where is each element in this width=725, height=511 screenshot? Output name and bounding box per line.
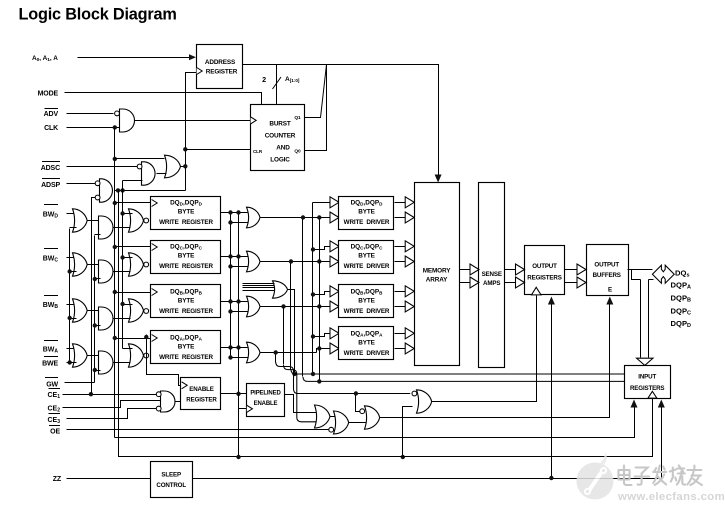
svg-text:REGISTER: REGISTER [186,397,217,404]
wire CE1 [63,394,157,396]
byte write register U5 DQB [151,285,221,318]
wire G5A lower input [70,362,77,364]
wire BWB input [67,304,77,306]
bubble G7C output [144,262,149,267]
svg-text:BYTE: BYTE [358,253,375,260]
junction v122 row B [120,302,124,306]
wire G14 out to output registers [432,296,537,402]
svg-text:CONTROL: CONTROL [156,482,186,489]
svg-text:BWB: BWB [43,302,59,310]
wire memory to sense 2 [460,282,473,284]
open arrow sense-outreg 2 [516,277,525,288]
wire register C output [221,256,248,258]
wire GW vertical [94,236,96,383]
wire GW to G6A [95,370,101,372]
wire CE3 [67,409,157,419]
open arrow driver A out lower [405,343,414,354]
svg-text:BWE: BWE [42,361,58,368]
bubble G1 ADV input [115,111,120,116]
wire register-out vertical x238 [238,213,240,457]
junction x230 G8D [228,220,232,224]
node MODE [38,91,59,98]
wire bundle B [284,307,317,422]
wire BWD input [67,213,77,215]
or-gate G8B write-enable [247,296,261,317]
arrowhead input registers 1 [631,400,638,408]
node BWA [43,341,59,355]
or-gate G13 enable-3 [365,406,380,429]
junction sleep outreg branch [549,476,553,480]
wire x313 jog to driver C top [313,247,331,250]
bubble G4 lower input [95,195,100,200]
wire G8C output to driver [261,261,339,263]
junction x313 row B [311,292,315,296]
junction x185 CLR [183,147,187,151]
node A0, A1, A [32,55,58,63]
wire bundle C to input registers line 1 [291,262,625,375]
wire G9 output [288,290,295,375]
junction CLK [113,125,117,129]
svg-text:GW: GW [46,382,58,389]
wire x230 to G8D [231,222,249,224]
open arrowhead into input registers top [637,358,654,365]
junction G4 out / v122 [120,188,124,192]
svg-text:CE3: CE3 [47,417,60,425]
svg-text:MEMORY: MEMORY [423,268,452,275]
junction G9-line1 [292,372,296,376]
svg-text:BYTE: BYTE [358,298,375,305]
wire G6D out to G7D [114,227,131,229]
svg-text:WRITE REGISTER: WRITE REGISTER [159,219,213,226]
wire CLK to register C [115,246,151,248]
arrowhead output registers 2 [548,297,555,305]
node ADSC [41,162,60,173]
bubble G7A output [144,353,149,358]
wire G5C lower input [70,271,77,273]
wire G5C out to G6C [88,264,99,266]
junction CLK row B [113,290,117,294]
junction v122 row A [0,0,1,1]
or-gate G7D byte-write-3 [129,209,144,232]
svg-text:BURST: BURST [269,121,291,128]
wire driver C out top [395,246,407,248]
junction bundle B row B [281,304,285,308]
junction bundle C row C [289,259,293,263]
junction L3 enable branch [236,455,240,459]
bubble G14 upper input [412,391,417,396]
junction v122 row C [120,255,124,259]
and-gate G4 ADSP [100,179,113,202]
svg-text:BYTE: BYTE [178,298,195,305]
wire G1 out to burst counter clock [135,120,251,122]
wire BW common vertical [69,229,71,363]
open arrow outreg-outbuf 1 [577,264,586,275]
svg-text:DQA,DQPA: DQA,DQPA [170,335,203,342]
wire CE1 up to G4 [92,198,96,395]
wire GW to G6D [95,234,101,236]
wire CLK [67,127,120,129]
wire L2 clock rail [115,405,635,438]
wire address bus [243,65,439,177]
wire G3 output [181,166,186,168]
or-gate G8D write-enable [247,207,261,228]
junction x319 row D [317,215,321,219]
wire v122 to G7B [123,304,133,306]
wire BWC input [67,257,77,259]
wire outreg to outbuf 1 [565,269,579,271]
junction gateD-line G13 [354,391,358,395]
node OE [49,426,60,436]
wire G6B out to G7B [114,318,131,320]
svg-text:BYTE: BYTE [178,209,195,216]
wire G2 out to G3 [157,173,167,175]
node CE3 [47,414,60,426]
sense amps U12 [479,183,505,368]
byte write driver U8 DQC [339,241,394,274]
svg-text:DQA,DQPA: DQA,DQPA [351,331,384,338]
wire CLR [186,149,251,151]
and-gate G6D byte-write-2 [99,216,114,239]
node DQPB [671,294,691,304]
open arrow driver C out top [405,241,414,252]
bus slash A[1:0] [273,77,282,89]
svg-text:CE1: CE1 [47,392,60,400]
label bus width 2 [262,75,266,84]
open arrow driver A top input [330,328,339,339]
wire sleep output rail [193,405,662,479]
svg-text:Q1: Q1 [294,115,301,121]
wire pipelined out to G11 [285,395,317,413]
svg-text:ADSP: ADSP [41,182,60,189]
wire G9 input 4 [243,290,275,292]
wire driver A out top [395,333,407,335]
junction x319 row A [317,346,321,350]
wire outreg to outbuf 2 [565,282,579,284]
wire L3 rail [119,191,653,457]
wire sense to outreg 1 [505,269,518,271]
svg-text:REGISTERS: REGISTERS [630,385,664,392]
wire G4 output [115,190,186,192]
open arrow driver D lower input [330,212,339,223]
wire v122 to G7A [123,348,133,350]
svg-text:PIPELINED: PIPELINED [250,391,281,397]
svg-text:BYTE: BYTE [178,253,195,260]
wire ADV [67,113,114,115]
junction regC-out x238 [236,254,240,258]
or-gate G9 write-all [273,281,288,298]
node BWC [43,249,59,264]
junction regD-out x230 [228,210,232,214]
and-gate G6B byte-write-2 [99,307,114,330]
svg-text:BYTE: BYTE [178,344,195,351]
svg-text:E: E [608,287,612,294]
junction x230 G8C [228,264,232,268]
or-gate G5B byte-write-1 [73,299,88,322]
open arrow driver B out top [405,286,414,297]
node BWD [43,205,59,220]
wire Q0 feedback [305,65,327,151]
wire outbuf to DQ pads [628,269,653,271]
junction GW row B [93,323,97,327]
svg-text:REGISTER: REGISTER [206,69,238,76]
address register U1 [197,45,243,89]
wire driver data vertical x319 [319,219,321,382]
open arrow driver B lower input [330,301,339,312]
svg-text:OUTPUT: OUTPUT [532,263,557,270]
wire G5B lower input [70,318,77,320]
open clock arrow output registers [532,287,542,295]
svg-text:WRITE DRIVER: WRITE DRIVER [344,350,390,357]
pipelined enable U17 [247,384,285,417]
output registers U13 [525,246,565,295]
node CLK [44,125,58,132]
wire v122 to G7C [123,257,133,259]
svg-text:Q0: Q0 [294,149,301,155]
svg-text:INPUT: INPUT [638,374,656,381]
junction regB-out x230 [228,299,232,303]
node DQPD [671,319,691,329]
junction enable-out branch [236,392,240,396]
node GW [45,378,59,389]
node ADSP [41,179,60,189]
wire CLK to register A [115,338,151,340]
wire G5D out to G6D [88,220,99,222]
svg-text:WRITE DRIVER: WRITE DRIVER [344,263,390,270]
svg-text:BWD: BWD [43,212,59,220]
open arrow driver B top input [330,286,339,297]
junction bundle D row D [301,215,305,219]
svg-text:CLK: CLK [44,125,58,132]
wire driver C out lower [395,261,407,263]
junction regA-out x238 [236,345,240,349]
svg-text:SLEEP: SLEEP [161,472,181,479]
open arrow driver B out lower [405,301,414,312]
wire sleep to output registers arrow [551,304,553,479]
node CE1 [47,389,60,401]
wire CE2 [63,401,161,408]
junction GW row A [93,368,97,372]
junction x313 line1 [311,372,315,376]
wire register-out vertical x230 [230,213,232,358]
wire GW to G6B [95,325,101,327]
wire G10 out [176,401,181,403]
bubble G13 upper input [360,409,365,414]
arrowhead address bus into memory array [435,175,442,183]
wire A0A1A to address register [78,57,193,59]
junction clock row A branch [144,335,148,339]
wire G13 out to E [380,305,610,418]
open arrow mem-sense 2 [470,277,479,288]
open arrow outreg-outbuf 2 [577,277,586,288]
wire GW [65,382,95,384]
junction x319 line2 [317,379,321,383]
wire driver data vertical x313 [312,203,314,375]
svg-text:BYTE: BYTE [358,340,375,347]
byte write register U6 DQA [151,331,221,364]
wire BWE input [67,362,77,364]
and-gate G1 ADV-CLK [120,109,135,132]
wire v122 up to G2 [122,181,124,191]
byte write register U4 DQC [151,241,221,274]
or-gate G5A byte-write-1 [73,344,88,367]
svg-text:AND: AND [276,145,290,152]
junction BWE [68,360,72,364]
svg-text:DQPC: DQPC [671,307,691,317]
node ADV [44,109,59,119]
junction bundle A row A [274,350,278,354]
wire G5A out to G6A [88,355,99,357]
watermark logo [577,451,614,500]
svg-text:WRITE REGISTER: WRITE REGISTER [159,263,213,270]
sleep control U18 [151,462,193,498]
wire CLK to register B [115,292,151,294]
wire G6A out to G7A [114,362,131,364]
double arrow DQ bidirectional [652,265,674,283]
wire bundle A [276,353,411,394]
bubble G10 CE1 input [156,392,161,397]
wire DQ to input-registers bus [632,270,654,358]
wire G8D output to driver [261,217,339,219]
wire x313 to driver D top [313,202,331,204]
bubble G7D output [144,218,149,223]
byte write driver U7 DQD [339,197,394,230]
svg-text:WRITE DRIVER: WRITE DRIVER [344,219,390,226]
arrowhead A input [189,54,196,60]
wire ADSC [67,166,138,168]
wire x230 to G8B [231,311,249,313]
svg-text:WRITE REGISTER: WRITE REGISTER [159,354,213,361]
svg-text:COUNTER: COUNTER [265,133,296,140]
svg-text:BWA: BWA [43,347,59,355]
or-gate G14 outreg-enable [417,390,432,413]
svg-text:BWC: BWC [43,256,59,264]
junction regC-out x230 [228,254,232,258]
output buffers U14 [587,245,629,296]
node DQPC [671,307,691,317]
wire clock to enable register [147,335,181,386]
wire memory to sense 1 [460,269,473,271]
and-gate G6C byte-write-2 [99,260,114,283]
bubble G10 CE3 input [156,406,161,411]
wire CLK to register D [115,202,151,204]
junction BW common row B [68,316,72,320]
open arrow driver D top input [330,197,339,208]
junction GW row C [93,277,97,281]
junction CE1 branch [89,392,93,396]
svg-text:DQB,DQPB: DQB,DQPB [170,289,203,296]
arrowhead input registers 3 [658,400,665,408]
open clock arrow input registers [648,391,657,398]
junction regA-out x230 [228,345,232,349]
junction x230 G8A [228,355,232,359]
wire G5D lower input [70,227,77,229]
wire driver A out lower [395,348,407,350]
or-gate G8C write-enable [247,251,261,272]
svg-text:ENABLE: ENABLE [254,401,278,407]
wire G2 lower input [123,180,143,182]
svg-text:SENSE: SENSE [482,271,502,278]
wire enable register output [221,393,247,395]
wire x313 jog to driver A top [313,334,331,337]
svg-text:DQPA: DQPA [671,281,691,291]
wire Q1 feedback [305,65,327,118]
junction x185 G3-out [183,164,187,168]
svg-text:DQC,DQPC: DQC,DQPC [351,244,384,251]
wire G5B out to G6B [88,310,99,312]
wire G8B output to driver [261,306,339,308]
junction x319 row C [317,259,321,263]
input registers U15 [625,366,671,399]
svg-text:ADSC: ADSC [41,165,60,172]
wire register D output [221,212,248,214]
svg-text:OUTPUT: OUTPUT [594,262,619,269]
wire G11 out to G12 [331,416,335,418]
node CE2 [47,406,60,414]
wire clock net vertical x185 [186,73,197,191]
svg-text:www.elecfans.com: www.elecfans.com [617,491,725,503]
wire GW to G6C [95,278,101,280]
junction L3 G14 [401,455,405,459]
svg-text:ADDRESS: ADDRESS [205,59,236,66]
bubble G2 ADSC input [137,164,142,169]
wire G8A out jog [317,349,331,353]
or-gate G7A byte-write-3 [129,344,144,367]
wire G12 out to G13 [349,422,367,424]
junction regD-out x238 [236,210,240,214]
junction CLK row C [113,245,117,249]
junction CLK-G3 branch [113,157,117,161]
junction v122 row D [120,211,124,215]
watermark text [617,466,725,504]
junction x230 G8B [228,309,232,313]
wire v122 to G7D [123,213,133,215]
svg-text:BUFFERS: BUFFERS [593,272,621,279]
wire ZZ [67,478,151,480]
and-gate G6A byte-write-2 [99,351,114,374]
or-gate G7B byte-write-3 [129,299,144,322]
junction x319 row B [317,304,321,308]
or-gate G12 enable-2 [334,411,349,434]
or-gate G8A write-enable [247,342,261,363]
or-gate G7C byte-write-3 [129,253,144,276]
wire bundle D to input registers line 2 [303,218,625,382]
wire G6C out to G7C [114,271,131,273]
svg-text:WRITE REGISTER: WRITE REGISTER [159,308,213,315]
svg-text:CLR: CLR [253,149,263,154]
svg-text:ADV: ADV [44,111,59,118]
bubble G7B output [144,309,149,314]
svg-text:Logic Block Diagram: Logic Block Diagram [19,6,177,24]
junction BW common row C [68,269,72,273]
svg-text:2: 2 [262,75,266,84]
or-gate G3 clk-adsc [165,155,181,178]
svg-text:DQPB: DQPB [671,294,691,304]
arrowhead E input [606,297,613,305]
svg-text:A0, A1, A: A0, A1, A [32,55,58,63]
wire G8A output [261,352,317,354]
bubble G12 OE input [329,427,334,432]
wire driver B out lower [395,306,407,308]
junction CLK row A [113,336,117,340]
or-gate G5D byte-write-1 [73,209,88,232]
wire x313 jog to driver B top [313,292,331,295]
wire MODE to burst counter [65,93,262,105]
wire driver D out lower [395,217,407,219]
wire sense to outreg 2 [505,282,518,284]
svg-text:BYTE: BYTE [358,209,375,216]
svg-text:DQC,DQPC: DQC,DQPC [170,244,203,251]
byte write driver U9 DQB [339,285,394,318]
